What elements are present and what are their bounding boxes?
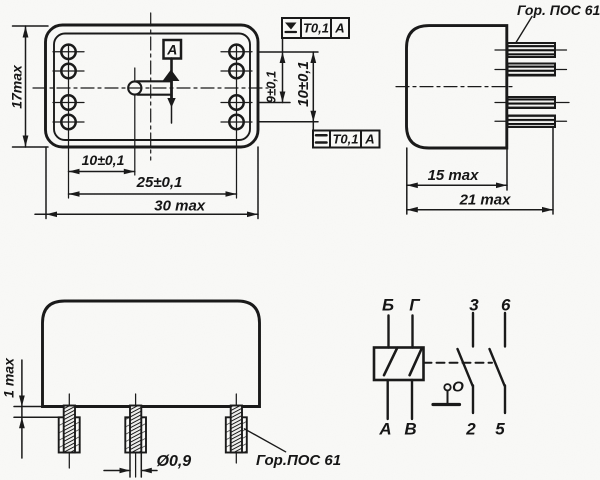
front pin 1 sleeve [59, 417, 80, 452]
pin row 3 extension line (right) [259, 102, 290, 104]
pin 5 [229, 45, 243, 59]
contact 1 movable arm [458, 349, 473, 386]
relay body outline (front view) [43, 301, 260, 407]
datum lower stem [170, 81, 173, 100]
front pin 2 [130, 406, 141, 453]
frame 1 symbol [285, 23, 297, 30]
datum A stem [170, 59, 173, 73]
datum A triangle [163, 70, 180, 82]
contact 2 movable arm [490, 349, 505, 386]
relay body outline (side view) [407, 26, 507, 148]
svg-text:5: 5 [495, 420, 505, 439]
svg-text:10±0,1: 10±0,1 [295, 61, 312, 107]
coil lead Б [387, 316, 389, 348]
slot upper line [137, 80, 172, 82]
solder label leader (top) [516, 17, 532, 44]
svg-text:Б: Б [382, 296, 394, 315]
svg-text:10±0,1: 10±0,1 [82, 152, 125, 168]
coil lead В [411, 380, 413, 419]
solder label leader (bottom) [244, 429, 285, 452]
dim 17max top extension line [13, 25, 49, 27]
dim 10±0,1 line (bottom) [69, 171, 135, 173]
pin 8 [229, 115, 243, 129]
pin row 4 extension line (right) [259, 121, 318, 123]
pin 6 cross line [221, 70, 252, 72]
pin 4 cross line [53, 121, 84, 123]
pin 6 [229, 64, 243, 78]
front pin 3 axis [235, 394, 237, 463]
dim Ø0,9 right pin-edge extension [140, 453, 142, 478]
svg-text:В: В [404, 420, 416, 439]
svg-text:15 max: 15 max [428, 167, 480, 184]
dim 1max upper extension [14, 406, 44, 408]
contact 2 lead (pin 5) [504, 386, 506, 414]
center hole vertical mark [134, 68, 136, 80]
dim 15max left extension [406, 148, 408, 214]
svg-text:О: О [452, 379, 464, 396]
tolerance frame 2 (parallelism T0,1 A) [313, 131, 380, 148]
pin 1 [61, 45, 75, 59]
dim 21max right extension (from pin tips) [552, 128, 554, 214]
case terminal O circle [444, 384, 450, 390]
contact 1 fixed lead (pin 3) [472, 313, 474, 347]
coil lead А [387, 380, 389, 419]
dim 15max line [407, 184, 507, 186]
slot lower line [138, 94, 172, 96]
case terminal O stem [447, 391, 449, 404]
dim Ø0,9 line [104, 470, 130, 472]
mechanical link (dashed) [424, 362, 493, 364]
svg-text:А: А [166, 42, 177, 58]
pin 7 [229, 95, 243, 109]
dim 15max right extension [506, 148, 508, 190]
dim Ø0,9 left pin-edge extension [129, 453, 131, 478]
svg-text:Г: Г [409, 296, 421, 315]
dim 21max line [407, 209, 553, 211]
datum A frame box [164, 40, 182, 59]
svg-text:6: 6 [501, 296, 511, 315]
dim 30max right extension [257, 147, 259, 219]
side view centerline [396, 86, 512, 88]
svg-text:30 max: 30 max [154, 198, 206, 215]
side pin 4 [508, 116, 556, 128]
pin 1 cross line [53, 51, 84, 53]
side pin 1 axis ticks [495, 49, 506, 51]
center hole [128, 81, 141, 94]
datum lower stem tail [171, 104, 173, 123]
coil winding diagonal 2 [410, 348, 422, 375]
coil K1 [374, 348, 424, 381]
frame 2 symbol [316, 134, 327, 137]
pin 8 cross line [221, 121, 252, 123]
svg-text:3: 3 [469, 296, 479, 315]
side pin 2 [508, 64, 556, 76]
svg-text:2: 2 [465, 420, 476, 439]
dim 30max line [35, 213, 258, 215]
horizontal centerline [33, 87, 268, 89]
side pin 2 axis ticks [495, 69, 506, 71]
relay body inner edge (top view) [54, 34, 250, 141]
tolerance frame 1 (perpendicularity T0,1 A) [282, 18, 349, 38]
svg-text:9±0,1: 9±0,1 [264, 71, 279, 103]
left pin column axis [68, 44, 70, 198]
svg-text:17max: 17max [9, 64, 25, 109]
vertical centerline [150, 13, 152, 160]
dim 1max lower extension [14, 416, 59, 418]
front pin 2 sleeve [125, 417, 146, 452]
front pin 1 axis [68, 394, 70, 468]
side pin 3 axis ticks [495, 102, 506, 104]
pin 2 cross line [53, 70, 84, 72]
contact 2 fixed lead (pin 6) [504, 313, 506, 347]
pin 4 [61, 115, 75, 129]
dim 25±0,1 line [69, 193, 237, 195]
dim 17max bottom extension line [13, 146, 49, 148]
pin 2 [61, 64, 75, 78]
dim 30max left extension [45, 147, 47, 219]
pin 7 cross line [221, 102, 252, 104]
svg-text:21 max: 21 max [459, 192, 512, 209]
svg-text:1 max: 1 max [1, 357, 17, 398]
svg-text:Ø0,9: Ø0,9 [157, 453, 192, 470]
dim 9±0,1 line with frame leader [282, 38, 284, 103]
svg-text:Гор.ПОС 61: Гор.ПОС 61 [256, 452, 341, 469]
datum lower arrow [167, 98, 175, 108]
svg-text:А: А [378, 420, 391, 439]
pin 3 [61, 95, 75, 109]
coil winding diagonal 1 [384, 348, 397, 376]
svg-text:Т0,1: Т0,1 [303, 21, 329, 36]
svg-text:Гор. ПОС 61: Гор. ПОС 61 [517, 2, 600, 18]
svg-text:А: А [334, 21, 344, 36]
svg-text:А: А [364, 132, 374, 147]
svg-text:25±0,1: 25±0,1 [136, 174, 183, 191]
front pin 3 sleeve [226, 417, 247, 452]
svg-text:Т0,1: Т0,1 [332, 132, 358, 147]
front pin 2 axis [135, 394, 137, 477]
side pin 1 [508, 43, 556, 57]
relay body outline (top view outer) [46, 25, 259, 147]
front pin 1 [64, 406, 75, 453]
center hole axis extension down [134, 96, 136, 176]
case terminal O bar [433, 403, 460, 406]
pin 3 cross line [53, 102, 84, 104]
side pin 4 axis ticks [495, 120, 506, 122]
dim 17max line [25, 26, 27, 147]
side pin 3 [508, 97, 556, 108]
coil lead Г [411, 316, 413, 348]
dim 10±0,1 line (right) with frame leader [312, 52, 314, 131]
pin row 1 extension line (right) [259, 51, 318, 53]
front pin 3 [231, 406, 242, 453]
pin 5 cross line [221, 51, 252, 53]
right pin column axis [236, 44, 238, 198]
contact 1 lead (pin 2) [472, 386, 474, 414]
dim 1max line [21, 360, 23, 458]
